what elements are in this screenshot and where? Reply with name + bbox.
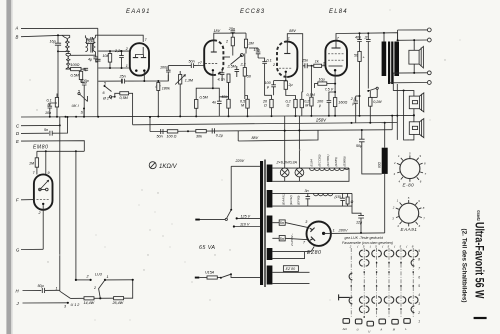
svg-text:50k: 50k [87, 40, 93, 44]
svg-text:μ: μ [318, 104, 321, 108]
svg-text:(EC92): (EC92) [289, 195, 293, 205]
capacitor 10n lower [258, 58, 272, 77]
ECC83a grid dash [205, 63, 218, 65]
svg-text:5n: 5n [280, 221, 284, 225]
capacitor 25n [122, 79, 127, 84]
grid leak 0,5M EL84 [307, 66, 316, 115]
bandfilter T2 winding left [85, 35, 87, 51]
power transformer core [260, 161, 263, 285]
svg-text:50: 50 [247, 75, 252, 79]
svg-text:D: D [16, 131, 19, 136]
capacitor 3n row2 [306, 193, 311, 206]
EZ 80 box label [283, 266, 298, 272]
ECC83b cathode parts [265, 80, 296, 100]
svg-text:7: 7 [303, 241, 306, 245]
svg-text:25n: 25n [119, 75, 126, 79]
svg-text:Ω: Ω [351, 200, 354, 204]
svg-text:EZ 80: EZ 80 [286, 267, 296, 271]
svg-text:(EF85): (EF85) [334, 157, 338, 166]
svg-text:2×250V~: 2×250V~ [290, 233, 294, 247]
resistor 50k fb [219, 82, 230, 116]
5n box capacitor 1 [279, 220, 285, 225]
svg-text:2: 2 [86, 275, 89, 279]
wire: vertical from A line down to ground bus [97, 28, 99, 117]
tube EZ80 [307, 222, 331, 246]
junction [143, 80, 145, 82]
dial lamp 1 [280, 168, 289, 181]
svg-text:5: 5 [408, 196, 410, 200]
capacitor row2b [340, 193, 345, 206]
svg-text:2: 2 [38, 211, 41, 215]
svg-text:1KΩ/V: 1KΩ/V [159, 164, 178, 170]
svg-text:25n: 25n [301, 58, 308, 62]
100u capacitor [317, 91, 336, 115]
svg-text:2: 2 [393, 161, 396, 165]
resistor 50k [243, 54, 252, 100]
EAA91 cathodes [135, 69, 138, 72]
svg-text:EM80: EM80 [33, 145, 48, 151]
svg-text:G: G [16, 247, 20, 252]
svg-text:2: 2 [417, 311, 420, 315]
svg-text:2: 2 [225, 40, 228, 44]
5n box capacitor 2 [279, 236, 285, 241]
speaker 1 [409, 46, 424, 68]
ECC83b anode [284, 53, 290, 55]
svg-text:M: M [393, 328, 396, 332]
tube socket field [339, 245, 421, 334]
switch UK I [72, 90, 88, 117]
primary tap 220V [231, 166, 260, 210]
L3 top tap line [70, 54, 95, 56]
capacitor 12u [352, 206, 364, 234]
winding row2 rails [272, 193, 352, 206]
resistor 0,5M col1 [195, 96, 209, 117]
svg-text:160Ω: 160Ω [338, 101, 347, 105]
svg-text:(2. Teil des Schaltbildes): (2. Teil des Schaltbildes) [461, 229, 467, 303]
svg-text:50n: 50n [189, 59, 195, 63]
svg-text:8: 8 [423, 206, 425, 210]
svg-text:2,5M: 2,5M [227, 64, 237, 68]
capacitor 0,1u psu [212, 128, 223, 137]
line to output terminal 1 [398, 29, 428, 31]
wire A [21, 27, 98, 29]
svg-text:7: 7 [423, 217, 425, 221]
svg-text:4,7n: 4,7n [218, 78, 225, 82]
svg-text:L: L [405, 327, 407, 331]
svg-text:UK I: UK I [72, 104, 79, 108]
svg-text:0,5M: 0,5M [71, 74, 80, 78]
svg-text:gez.LUK -Teste gedruckt: gez.LUK -Teste gedruckt [345, 236, 384, 240]
resistor 0,5M horizontal [115, 92, 133, 125]
svg-text:3: 3 [418, 302, 420, 306]
svg-text:7,5 V: 7,5 V [325, 88, 334, 92]
svg-text:4: 4 [397, 224, 399, 228]
choke 80ohm [377, 123, 387, 233]
svg-text:5n: 5n [280, 237, 284, 241]
svg-text:9: 9 [420, 154, 422, 158]
svg-text:EAA91: EAA91 [401, 227, 418, 232]
ECC83a supply line [214, 33, 246, 42]
svg-text:ECC83: ECC83 [240, 9, 265, 15]
svg-text:EL84: EL84 [310, 159, 314, 167]
svg-text:40n: 40n [355, 35, 361, 39]
feedback loop wire [213, 88, 219, 97]
bottom spare rails [272, 272, 309, 283]
svg-text:2n: 2n [364, 35, 369, 39]
lower coil L3 [66, 51, 70, 68]
switch U12 [60, 291, 71, 298]
svg-text:100p: 100p [160, 66, 168, 70]
svg-text:8: 8 [424, 161, 426, 165]
svg-text:250V: 250V [315, 118, 327, 123]
ECC83a cathode [212, 69, 214, 71]
EL84 plate top line to transformer [336, 33, 384, 43]
HT rails to EZ80 [272, 223, 279, 239]
output terminal 3 [427, 71, 431, 75]
svg-text:5: 5 [409, 151, 411, 155]
svg-text:2: 2 [272, 63, 275, 67]
heater feed verticals [284, 116, 286, 168]
svg-text:88V: 88V [289, 29, 296, 33]
svg-text:2M: 2M [248, 42, 255, 46]
svg-text:2μ: 2μ [288, 83, 293, 87]
T2 winding right [93, 35, 95, 55]
tone switch [368, 88, 376, 91]
svg-text:3: 3 [394, 172, 396, 176]
speaker 2 [409, 93, 424, 112]
svg-text:(: ( [382, 245, 384, 249]
svg-text:0,1: 0,1 [267, 59, 272, 63]
svg-text:EL84: EL84 [329, 9, 348, 15]
svg-text:12μ: 12μ [356, 220, 362, 224]
resistor 0,2M col6 [300, 92, 309, 116]
svg-text:18V: 18V [214, 29, 221, 33]
svg-text:100 Ω: 100 Ω [167, 135, 177, 139]
mains line [199, 219, 225, 221]
capacitor 1,2n [364, 32, 371, 88]
svg-text:5n: 5n [44, 128, 48, 132]
tube EM80 [34, 174, 53, 209]
paper edge gray strip [6, 0, 11, 334]
svg-text:0,2M: 0,2M [373, 100, 382, 104]
resistor 2M right column [244, 33, 254, 53]
electrolytic 50 [354, 51, 366, 114]
svg-text:1,3M: 1,3M [185, 79, 194, 83]
svg-text:B: B [16, 35, 19, 40]
dial lamp 2 [295, 168, 304, 181]
output transformer [382, 42, 399, 85]
capacitor 15n [249, 48, 260, 58]
heater coil scallops [310, 168, 350, 171]
svg-text:1: 1 [107, 275, 109, 279]
svg-text:1: 1 [418, 320, 420, 324]
capacitor 500p lower [81, 79, 89, 117]
fuse U15A line [195, 277, 200, 279]
svg-text:25n: 25n [228, 27, 235, 31]
capacitor 16p [50, 34, 62, 52]
svg-text:1: 1 [126, 64, 128, 68]
resistor 38k [240, 96, 249, 117]
svg-text:80Ω: 80Ω [377, 161, 381, 168]
speaker 2 feed [393, 91, 414, 97]
secondary winding blocks [267, 165, 273, 183]
svg-text:2: 2 [349, 245, 352, 249]
svg-text:C: C [16, 124, 20, 129]
svg-text:5: 5 [418, 284, 420, 288]
ECC83b cathode [285, 71, 287, 73]
wires 5n to EZ80 [285, 223, 308, 240]
svg-text:E: E [16, 139, 19, 144]
output terminal 4 [427, 81, 431, 85]
svg-text:10n: 10n [45, 111, 51, 115]
svg-text:280V: 280V [338, 228, 348, 233]
svg-text:2: 2 [125, 47, 128, 51]
antenna coil winding 1 [62, 35, 67, 51]
EL84 grids dashed [328, 53, 344, 55]
rotated labels row2 [281, 193, 300, 205]
vertical 392 down [391, 116, 393, 130]
svg-text:U: U [368, 330, 371, 334]
pin 2 wire [98, 50, 130, 52]
svg-text:Graetz: Graetz [476, 210, 481, 221]
svg-text:M: M [241, 104, 245, 108]
socket circle EAA91 [392, 196, 426, 232]
L3 bottom to resistor [66, 68, 71, 71]
label 50k box [86, 39, 93, 44]
svg-text:110 V: 110 V [240, 223, 250, 227]
resistor 30k psu [187, 130, 206, 139]
svg-text:1: 1 [397, 198, 399, 202]
svg-text:EZ80: EZ80 [307, 250, 321, 256]
capacitor 100p [166, 70, 171, 81]
tube ECC83 half b [287, 42, 297, 78]
svg-text:U 1 2: U 1 2 [71, 303, 80, 307]
resistor 180k vertical [157, 83, 160, 91]
capacitor 40n [355, 32, 362, 51]
svg-text:(: ( [357, 245, 359, 249]
long vertical x58 to bus [57, 51, 59, 97]
svg-text:A: A [379, 327, 382, 331]
svg-text:6: 6 [419, 224, 421, 228]
svg-text:1: 1 [398, 154, 400, 158]
svg-text:6: 6 [420, 180, 422, 184]
margin underline [474, 317, 487, 319]
ground bus [21, 116, 397, 117]
svg-text:Ø 2 4: Ø 2 4 [102, 97, 112, 101]
heater winding rails [272, 168, 349, 181]
svg-text:2: 2 [392, 206, 395, 210]
wire cathode to detector line [143, 72, 145, 82]
capacitor 25n top column [228, 27, 235, 37]
wire B [21, 35, 70, 36]
output terminal 1 circle [427, 28, 431, 32]
output terminal 2 [427, 38, 431, 42]
resistor 1k [312, 60, 326, 68]
svg-text:10μ: 10μ [319, 77, 325, 81]
svg-text:4: 4 [418, 293, 420, 297]
wire B to coil [58, 50, 70, 52]
svg-text:⊙: ⊙ [356, 327, 359, 331]
svg-text:2: 2 [93, 286, 96, 290]
svg-text:4: 4 [399, 179, 401, 183]
svg-text:1: 1 [56, 287, 58, 291]
resistor row2 [346, 197, 349, 204]
svg-text:65 VA: 65 VA [199, 245, 215, 251]
resistor 0,2M tone [369, 91, 383, 123]
svg-text:6: 6 [103, 91, 106, 95]
svg-text:8: 8 [418, 258, 420, 262]
svg-text:M: M [305, 104, 309, 108]
potentiometer 1,3M [179, 75, 182, 85]
svg-text:16p: 16p [50, 40, 56, 44]
svg-text:+: + [363, 56, 366, 60]
svg-text:3: 3 [64, 304, 67, 308]
row2 coil scallops [314, 193, 333, 195]
heater resistor row [70, 297, 84, 299]
wire T2 top to EAA91 pin7 [95, 35, 143, 42]
capacitor 50n coupling [191, 63, 203, 68]
cathode resistor 160ohm [333, 98, 347, 107]
svg-text:4μ: 4μ [88, 58, 92, 62]
long vertical EM80 right [75, 151, 77, 279]
tube EAA91 [130, 43, 149, 75]
long vertical from C [59, 117, 61, 291]
svg-text:Ω: Ω [264, 104, 267, 108]
svg-text:(: ( [370, 245, 372, 249]
svg-text:1k: 1k [315, 60, 319, 64]
svg-text:(: ( [406, 245, 408, 249]
capacitor 50n psu [157, 129, 164, 139]
capacitor 4,7n [218, 69, 225, 82]
svg-text:1: 1 [333, 229, 335, 233]
svg-text:2: 2 [322, 61, 325, 65]
svg-text:μ: μ [266, 85, 269, 89]
capacitor 500p pot [235, 66, 240, 77]
EM80 top line [37, 150, 84, 152]
ECC83b grid dash [279, 67, 292, 69]
svg-text:7: 7 [425, 172, 427, 176]
svg-text:7: 7 [33, 171, 36, 175]
svg-text:50n: 50n [157, 135, 163, 139]
resistor 100 ohm [71, 63, 86, 71]
svg-text:9: 9 [48, 171, 50, 175]
svg-text:7: 7 [418, 267, 420, 271]
rotated tube names row1 [310, 154, 347, 166]
capacitor 500p upper [84, 68, 89, 71]
svg-text:50μ: 50μ [38, 284, 44, 288]
svg-text:(: ( [394, 245, 396, 249]
svg-text:(ECC83): (ECC83) [318, 154, 322, 166]
T2 core [91, 37, 93, 53]
svg-text:88V: 88V [252, 136, 259, 140]
resistor 1M [29, 151, 39, 174]
svg-text:F: F [16, 198, 19, 203]
svg-text:30k: 30k [196, 134, 202, 138]
tube EL84 [325, 41, 347, 76]
svg-text:0,1μ: 0,1μ [216, 134, 223, 138]
antenna coil winding 2 [67, 35, 69, 51]
wire coupling col down [302, 64, 304, 93]
10u cathode rect [315, 77, 337, 88]
resistor 0,5M [71, 70, 83, 82]
svg-text:(ECH81): (ECH81) [326, 154, 330, 166]
resistor 0,1M [47, 94, 59, 117]
svg-text:(EAA91): (EAA91) [281, 193, 285, 205]
filter capacitor 50u psu [356, 129, 382, 174]
EL84 anode [332, 47, 341, 49]
svg-text:1: 1 [288, 37, 290, 41]
svg-text:(EF80): (EF80) [297, 196, 301, 205]
svg-text:14,4W: 14,4W [84, 301, 95, 305]
capacitor 25n above UK [121, 79, 123, 84]
svg-text:3n: 3n [305, 189, 309, 193]
resistor 2M on column [231, 37, 234, 46]
svg-text:EAA91: EAA91 [126, 9, 151, 15]
b+ row 131 [150, 130, 392, 132]
detector line with 25n [98, 75, 168, 82]
volume pot wiper [224, 54, 243, 65]
svg-text:Ω: Ω [287, 104, 290, 108]
ECC83a cathode network wire [196, 77, 213, 100]
svg-text:A: A [15, 26, 19, 31]
secondary drop wires [389, 73, 397, 140]
meter note 1Kohm/V [149, 162, 177, 170]
svg-text:4n: 4n [212, 101, 216, 105]
svg-text:E-80: E-80 [403, 182, 415, 187]
capacitor 4n [88, 55, 98, 62]
capacitor 2,2n [114, 49, 124, 69]
capacitor 4n [212, 97, 222, 117]
svg-text:(EM80): (EM80) [342, 156, 346, 166]
svg-text:3: 3 [392, 217, 394, 221]
capacitor on A-drop [96, 59, 101, 61]
EAA91 anode plates [133, 57, 146, 59]
svg-text:180k: 180k [162, 86, 170, 90]
svg-text:LU3: LU3 [95, 272, 103, 276]
svg-text:9: 9 [418, 199, 420, 203]
svg-text:2×6,3V/0,3A: 2×6,3V/0,3A [276, 161, 298, 165]
svg-text:0,5M: 0,5M [200, 96, 209, 100]
pin 1 wire [98, 67, 130, 69]
svg-text:6: 6 [418, 275, 420, 279]
selector switch [230, 209, 232, 211]
EM80 pin stems [45, 151, 47, 174]
EZ80 cathode wire 280V [331, 232, 385, 235]
250V bus [133, 123, 397, 125]
svg-text:26,4W: 26,4W [112, 301, 124, 305]
svg-text:3: 3 [305, 220, 308, 224]
svg-text:5: 5 [104, 82, 107, 86]
EL84 cathode [334, 69, 337, 72]
tube ECC83 half a [204, 40, 214, 75]
svg-text:10k: 10k [103, 54, 109, 58]
tap 110V [234, 226, 260, 228]
resistor 20 col5 [286, 99, 298, 116]
capacitor 10n [45, 103, 57, 117]
svg-text:220V: 220V [235, 159, 245, 163]
heater rails EZ80 [272, 247, 314, 252]
coupling capacitor 25n [301, 58, 313, 68]
ECC83a anode [211, 51, 217, 53]
svg-text:S: S [81, 111, 84, 115]
svg-text:Ant: Ant [342, 327, 347, 331]
svg-text:9: 9 [418, 249, 420, 253]
svg-text:125 V: 125 V [241, 214, 251, 218]
resistor 0,5M col4 [262, 77, 273, 116]
speaker 3 [409, 119, 424, 140]
svg-text:7: 7 [200, 61, 203, 65]
svg-text:50μ: 50μ [356, 144, 362, 148]
